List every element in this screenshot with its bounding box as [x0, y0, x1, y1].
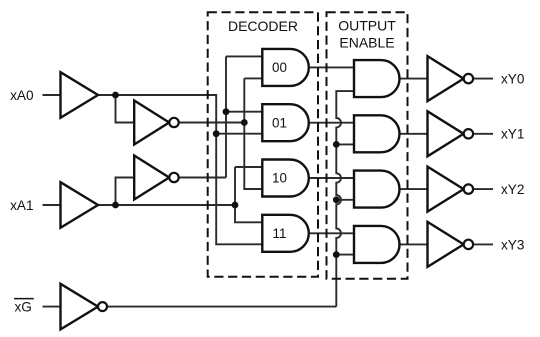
svg-text:xY0: xY0	[501, 72, 525, 87]
svg-text:xY2: xY2	[501, 182, 524, 197]
svg-text:OUTPUT: OUTPUT	[338, 18, 396, 34]
svg-text:xY1: xY1	[501, 127, 524, 142]
svg-text:11: 11	[273, 226, 287, 241]
svg-text:01: 01	[272, 115, 287, 130]
svg-text:xG: xG	[15, 300, 32, 315]
svg-text:xY3: xY3	[501, 237, 524, 252]
svg-text:DECODER: DECODER	[228, 18, 298, 34]
svg-text:10: 10	[272, 171, 287, 186]
svg-text:xA0: xA0	[10, 88, 34, 103]
svg-text:00: 00	[272, 60, 287, 75]
svg-text:ENABLE: ENABLE	[339, 35, 394, 51]
svg-text:xA1: xA1	[10, 198, 33, 213]
